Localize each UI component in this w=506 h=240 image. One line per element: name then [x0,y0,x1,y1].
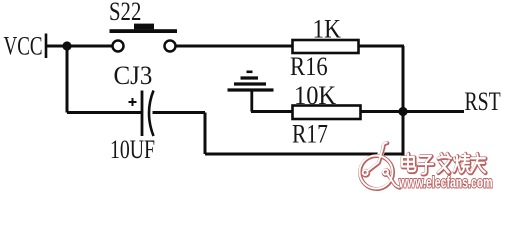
capacitor plus sign [129,98,137,106]
vertical wire below capacitor [204,113,207,155]
wire ground to R17 [251,110,293,113]
node junction dot at VCC branch [62,41,71,50]
svg-text:10UF: 10UF [110,134,155,163]
vertical wire right side [402,46,405,156]
circuit lines [46,34,464,156]
svg-text:S22: S22 [109,0,141,27]
watermark trace white underlay where it crosses the wire [378,147,383,163]
switch S22 actuator bar [110,29,178,33]
svg-text:VCC: VCC [4,32,43,61]
switch S22 button cap [134,24,154,30]
wire switch to R16 [176,45,294,48]
wire VCC to switch [46,45,113,48]
svg-text:R16: R16 [290,53,328,82]
svg-text:CJ3: CJ3 [114,60,153,90]
watermark shadow pass [360,143,486,189]
switch S22 left contact circle [113,41,124,52]
wire junction to RST [403,110,464,113]
capacitor CJ3 flat plate [141,91,144,137]
bottom wire [205,153,403,156]
wire R17 right to junction [360,110,403,113]
resistor R17 body [293,106,361,120]
watermark logo disc fill [360,156,392,188]
svg-text:R17: R17 [292,121,328,149]
wire capacitor right to corner [153,111,206,114]
watermark highlight pass [360,143,486,189]
wire junction down from VCC node [66,46,69,113]
node junction dot at RST [398,107,407,116]
resistor R16 body [293,40,359,53]
VCC power bar [45,34,48,59]
svg-text:www.elecfans.com: www.elecfans.com [398,173,492,191]
switch S22 right contact circle [165,41,176,52]
ground stub [250,90,253,112]
wire R16 right to corner [358,45,404,48]
ground symbol [228,72,274,90]
capacitor CJ3 curved plate [149,91,154,137]
svg-text:1K: 1K [313,15,341,44]
svg-text:10K: 10K [294,82,336,110]
wire to capacitor left [67,111,142,114]
svg-text:RST: RST [465,86,501,115]
